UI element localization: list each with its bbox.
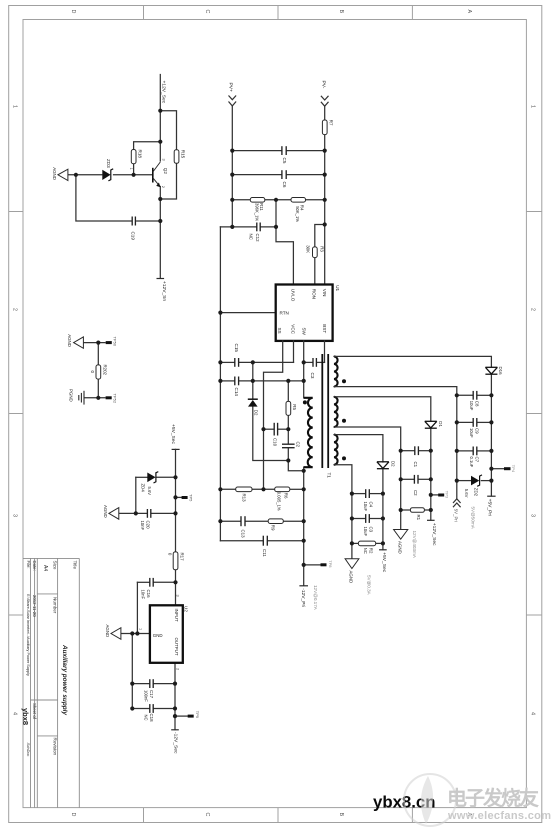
wire AGND node to R202 — [97, 343, 99, 365]
wire AGND to U2 pin1 — [121, 633, 150, 635]
capacitor C11 — [263, 536, 267, 546]
wire PV+ rail — [231, 106, 233, 227]
svg-text:C6: C6 — [282, 182, 287, 188]
resistor R1 — [410, 508, 424, 513]
wire R13 left lead — [220, 488, 235, 490]
svg-text:Size: Size — [53, 561, 58, 570]
wire C3s row right — [370, 518, 383, 520]
svg-text:+5V_Sec: +5V_Sec — [170, 424, 176, 445]
svg-text:4: 4 — [12, 712, 18, 715]
wire C10 row left — [264, 428, 274, 430]
terminal +12V_Sec — [427, 519, 435, 521]
svg-text:PV-: PV- — [321, 81, 327, 89]
wire C7 row left — [457, 450, 473, 452]
svg-text:PGND: PGND — [68, 389, 73, 402]
svg-text:VCC: VCC — [291, 324, 296, 334]
wire C9 row right — [478, 421, 492, 423]
wire C15 VCC row right — [239, 361, 293, 363]
resistor R15 — [174, 150, 179, 164]
wire C13 to R9 — [246, 520, 268, 522]
wire D2 to 5V rail — [382, 469, 384, 550]
capacitor C15 — [235, 358, 239, 367]
svg-text:.SchDoc: .SchDoc — [26, 742, 30, 756]
wire R3 bottom to RON pin — [314, 258, 316, 285]
transformer T1 secondary winding 3 — [334, 435, 338, 465]
wire C6 row left — [232, 174, 281, 176]
transformer T1 primary winding — [304, 398, 313, 467]
wire C16 branch down — [136, 582, 138, 633]
ground AGND test link block — [74, 337, 84, 348]
wire C3 bootstrap row — [304, 361, 313, 363]
diode D1 — [425, 421, 437, 428]
wire R2 row left — [352, 542, 359, 544]
capacitor C13 — [241, 516, 245, 526]
transformer T1 secondary 1 polarity dot — [342, 379, 346, 383]
svg-text:10uF: 10uF — [469, 401, 474, 411]
wire RON tap R3 — [315, 225, 325, 247]
svg-text:C: C — [204, 813, 210, 817]
resistor R18 — [131, 150, 136, 164]
svg-text:+5V_Sec: +5V_Sec — [381, 552, 387, 573]
port 5V_Pri chevron — [453, 499, 461, 507]
wire SS pin step down — [264, 341, 283, 489]
wire winding1 bottom return — [334, 387, 457, 499]
wire C18 row right — [154, 708, 175, 710]
svg-text:R3: R3 — [320, 246, 325, 252]
svg-text:C: C — [204, 10, 210, 14]
svg-text:TP52: TP52 — [112, 394, 117, 404]
diode D16 — [485, 367, 497, 374]
zener ZD3 — [102, 169, 113, 181]
zone divider ticks top — [144, 6, 413, 20]
wire PV- entry to R7 — [324, 106, 326, 120]
capacitor C19 — [132, 217, 135, 226]
wire TP4 stub — [491, 468, 504, 470]
svg-text:ZD3: ZD3 — [106, 159, 111, 168]
transformer T1 secondary 2 polarity dot — [342, 419, 346, 423]
svg-text:12V@403mA: 12V@403mA — [412, 531, 417, 559]
svg-text:File:: File: — [26, 561, 31, 569]
svg-text:RON: RON — [311, 289, 316, 299]
svg-text:3: 3 — [162, 159, 166, 161]
svg-text:5V_Pri: 5V_Pri — [453, 509, 458, 522]
svg-text:C12: C12 — [255, 234, 260, 243]
test point TP9 bar — [188, 715, 194, 718]
capacitor C8 — [473, 391, 477, 400]
wire C19 branch — [76, 175, 131, 221]
svg-text:C5: C5 — [282, 158, 287, 164]
svg-text:UVLO: UVLO — [291, 289, 296, 302]
svg-text:E:\Share-Solar Inverter\..\Aux: E:\Share-Solar Inverter\..\Auxiliary Pow… — [26, 594, 30, 676]
svg-text:5V@50mA: 5V@50mA — [471, 507, 476, 530]
svg-text:AGND: AGND — [103, 505, 108, 518]
svg-text:C13: C13 — [240, 530, 245, 539]
svg-text:Number: Number — [53, 597, 58, 614]
svg-text:Revision: Revision — [53, 738, 58, 756]
capacitor C6 — [282, 170, 286, 179]
svg-text:5.6V: 5.6V — [464, 489, 469, 498]
wire C18 row left — [132, 708, 149, 710]
capacitor C2 snubber vertical — [282, 444, 295, 448]
wire C2 row right — [419, 478, 431, 480]
wire RTN pin — [220, 312, 275, 314]
svg-text:3: 3 — [12, 514, 18, 517]
wire D16 to 5Vpri rail — [490, 375, 492, 496]
svg-text:1: 1 — [129, 168, 133, 170]
wire R15 branch top jog — [160, 111, 176, 150]
svg-text:U2: U2 — [183, 606, 188, 612]
wire winding2 top to D1 — [334, 397, 431, 421]
svg-text:AGND: AGND — [397, 541, 402, 554]
wire UVLO tap down — [275, 200, 277, 227]
test point TP50 bar — [106, 341, 112, 344]
op-amp U1 converter IC box — [276, 285, 333, 341]
wire R5 top lead — [287, 381, 289, 402]
svg-text:AGND: AGND — [52, 167, 57, 180]
ground PGND symbol — [79, 391, 84, 405]
wire divider row between R11 and R4 — [265, 199, 291, 201]
test point TP52 bar — [106, 396, 112, 399]
wire R18 bottom to base — [133, 164, 135, 175]
svg-text:R15: R15 — [181, 150, 186, 159]
transformer T1 secondary winding 1 — [334, 356, 338, 386]
ground AGND at Q2 base — [58, 169, 68, 180]
wire winding3 bottom to AGND column — [334, 465, 352, 559]
svg-text:www.elecfans.com: www.elecfans.com — [447, 810, 551, 822]
wire ZD2 row left — [457, 480, 471, 482]
wire TP9 stub — [175, 715, 188, 717]
svg-text:VIN: VIN — [322, 289, 327, 297]
svg-text:C7: C7 — [475, 457, 480, 463]
wire C11 row right — [268, 540, 303, 542]
svg-text:R5: R5 — [292, 404, 297, 410]
svg-text:TP50: TP50 — [113, 337, 118, 347]
svg-text:C10: C10 — [272, 438, 277, 447]
zone numbers right edge 1 2 3 4 — [530, 105, 536, 715]
wire winding2 bottom to AGND rail — [334, 427, 401, 529]
wire winding3 top to D2 — [334, 435, 383, 462]
capacitor C10 — [274, 423, 277, 436]
zone letters bottom edge D C B A — [70, 813, 472, 817]
svg-text:TP4: TP4 — [511, 465, 516, 473]
diode D2 secondary — [377, 462, 389, 469]
wire R1 row left — [401, 509, 411, 511]
capacitor C18 — [150, 704, 153, 713]
svg-text:D1: D1 — [438, 421, 443, 427]
svg-text:D: D — [70, 10, 76, 14]
wire C4 row right — [370, 493, 383, 495]
zone numbers left edge 1 2 3 4 — [12, 105, 18, 715]
svg-text:ybx8: ybx8 — [21, 708, 30, 725]
wire D1 to 12V rail — [430, 429, 432, 520]
svg-text:2: 2 — [530, 308, 536, 311]
resistor R17 — [173, 552, 178, 570]
wire primary bottom rail — [303, 467, 305, 585]
svg-text:GND: GND — [153, 633, 163, 638]
transformer T1 secondary winding 2 — [334, 397, 338, 427]
svg-text:-12V_Sec: -12V_Sec — [172, 732, 178, 754]
wire C5 row right — [287, 150, 325, 152]
svg-text:C2: C2 — [296, 442, 301, 448]
ground AGND 12V rail — [394, 530, 408, 540]
svg-text:10nF: 10nF — [140, 521, 145, 531]
ground AGND 5V column — [345, 559, 359, 569]
transformer T1 primary polarity dot — [303, 400, 307, 404]
svg-text:R202: R202 — [102, 365, 107, 376]
svg-text:Auxiliary power supply: Auxiliary power supply — [61, 644, 68, 715]
svg-text:12V@0.17A: 12V@0.17A — [313, 585, 318, 611]
wire C16 row — [137, 581, 149, 583]
svg-text:R13: R13 — [242, 494, 247, 503]
svg-text:2: 2 — [176, 668, 180, 670]
wire winding1 top to D16 — [334, 356, 491, 366]
wire C20 row left — [119, 512, 147, 514]
svg-text:1: 1 — [138, 628, 142, 630]
svg-text:2012-11-20: 2012-11-20 — [32, 595, 37, 617]
svg-text:AGND: AGND — [348, 571, 353, 584]
svg-text:TP9: TP9 — [195, 711, 200, 719]
svg-text:R18: R18 — [137, 150, 142, 159]
transformer T1 core bars — [322, 354, 328, 468]
terminal +12V_Sn — [157, 278, 165, 280]
svg-text:D16: D16 — [498, 367, 503, 376]
wire C6 row right — [287, 174, 325, 176]
svg-text:0.005_1%: 0.005_1% — [277, 492, 282, 511]
svg-text:RTN: RTN — [280, 311, 289, 316]
capacitor C3 secondary — [366, 514, 370, 523]
svg-text:C14: C14 — [234, 388, 239, 397]
svg-text:5V@0.3A: 5V@0.3A — [366, 575, 371, 596]
svg-text:TP3: TP3 — [445, 491, 450, 499]
port PV- chevron — [321, 96, 329, 106]
svg-text:10uF: 10uF — [363, 502, 368, 512]
capacitor C2 — [414, 475, 418, 484]
test point TP8 bar — [321, 563, 327, 566]
wire BST pin drop — [324, 341, 326, 363]
svg-text:BST: BST — [322, 324, 327, 333]
wire R202 to PGND — [97, 379, 99, 398]
svg-text:1: 1 — [12, 105, 18, 108]
resistor R7 — [322, 120, 327, 135]
svg-text:0.1uF: 0.1uF — [469, 457, 474, 468]
wire C9 row left — [457, 421, 473, 423]
resistor R13 — [236, 487, 252, 492]
wire C14 row to SW — [288, 380, 303, 382]
svg-text:C8: C8 — [475, 401, 480, 407]
ground AGND at U2 — [111, 628, 121, 640]
svg-text:R1: R1 — [416, 515, 421, 521]
wire TP8 stub — [304, 564, 321, 566]
capacitor C12 — [257, 223, 260, 232]
junction dots Q2 area — [74, 109, 163, 223]
wire divider row R4 right lead — [306, 199, 325, 201]
wire U2 ground rail — [131, 634, 133, 709]
resistor R2 — [358, 541, 375, 546]
wire UVLO jog to pin — [276, 227, 293, 285]
wire PGND row — [84, 397, 106, 399]
wire R1 row right — [424, 509, 430, 511]
wire U2 pin2 down — [174, 663, 176, 730]
svg-text:C1: C1 — [413, 462, 418, 468]
svg-text:NC: NC — [249, 234, 254, 240]
capacitor C7 — [473, 447, 477, 456]
svg-text:3: 3 — [530, 514, 536, 517]
svg-text:50K_1%: 50K_1% — [295, 206, 300, 222]
wire R17 to U2 pin3 — [175, 570, 177, 606]
zener ZD2 — [471, 475, 482, 486]
wire C10 row right — [278, 428, 288, 430]
svg-text:R7: R7 — [329, 120, 334, 126]
wire PV-/VIN rail — [324, 135, 326, 285]
test point TP5 bar — [182, 496, 188, 499]
svg-text:-12V_Pri: -12V_Pri — [300, 588, 306, 607]
wire C14 row right — [239, 380, 288, 382]
capacitor C5 — [282, 146, 286, 155]
svg-text:AGND: AGND — [67, 334, 72, 347]
wire R18 top jog to rail — [134, 142, 161, 150]
capacitor C20 — [147, 509, 150, 518]
svg-text:B: B — [338, 10, 344, 14]
wire C1 row left — [401, 450, 414, 452]
wire diode D2 primary branch upper — [252, 362, 254, 398]
resistor R11 — [250, 198, 264, 203]
wire TP5 stub — [176, 496, 182, 498]
svg-text:1: 1 — [530, 105, 536, 108]
svg-text:ZD4: ZD4 — [141, 484, 146, 493]
svg-text:Q2: Q2 — [163, 168, 168, 175]
wire snubber cap to primary rail — [288, 448, 303, 471]
resistor R3 — [313, 247, 318, 258]
wire C8 row right — [478, 394, 492, 396]
terminal -12V_Pri — [299, 585, 308, 587]
svg-text:PV+: PV+ — [227, 83, 233, 93]
svg-text:10uF: 10uF — [469, 428, 474, 438]
svg-text:Date:: Date: — [32, 561, 37, 571]
wire C1 row right — [419, 450, 430, 452]
wire C3 to BST — [317, 361, 325, 363]
wire R5 bottom to snubber cap — [287, 415, 289, 443]
title block outline — [23, 558, 79, 807]
capacitor C17 — [150, 679, 153, 688]
ground AGND at C20 — [109, 508, 119, 520]
resistor R9 — [268, 519, 283, 524]
svg-text:3: 3 — [176, 595, 180, 597]
junction dots input network — [218, 149, 327, 315]
wire C2 row left — [401, 478, 414, 480]
svg-text:D: D — [70, 813, 76, 817]
svg-text:+5V_Pri: +5V_Pri — [487, 499, 493, 517]
svg-text:+12V_Sn: +12V_Sn — [161, 281, 167, 302]
wire ZD2 row right — [481, 480, 491, 482]
wire diode D2 primary branch lower — [253, 407, 288, 461]
test point TP4 bar — [504, 467, 511, 470]
svg-text:R6: R6 — [284, 493, 289, 499]
svg-text:ZD2: ZD2 — [474, 488, 479, 497]
svg-text:A4: A4 — [42, 565, 48, 571]
wire AGND to TP50 — [83, 342, 105, 344]
svg-text:30K: 30K — [305, 245, 310, 253]
svg-text:INPUT: INPUT — [174, 609, 179, 622]
svg-text:B: B — [338, 813, 344, 817]
wire C3s row left — [352, 518, 365, 520]
wire C12 row right — [261, 226, 276, 228]
svg-text:C11: C11 — [262, 549, 267, 557]
wire VCC pin drop — [293, 341, 295, 363]
svg-text:U1: U1 — [335, 285, 340, 291]
capacitor C14 — [235, 377, 239, 386]
svg-text:C2: C2 — [413, 490, 418, 496]
svg-text:AGND: AGND — [105, 625, 110, 638]
wire R2 row right — [376, 542, 383, 544]
terminal +5V_Pri power bar — [487, 495, 495, 497]
svg-text:C3: C3 — [310, 373, 315, 379]
svg-text:NC: NC — [363, 548, 368, 554]
junction dots U2 block — [96, 341, 177, 719]
wire SW pin to primary — [303, 341, 305, 398]
wire C13 row left — [220, 520, 240, 522]
zone letters top edge D C B A — [70, 10, 472, 14]
svg-text:396K_1%: 396K_1% — [254, 203, 259, 221]
zone divider ticks bottom — [144, 808, 413, 823]
wire ZD4 corner down — [135, 477, 137, 513]
svg-text:R9: R9 — [271, 525, 276, 531]
wire ZD4 right lead — [156, 476, 175, 478]
svg-text:SS: SS — [277, 328, 282, 334]
svg-text:D2: D2 — [253, 410, 258, 416]
junction dots right section — [350, 393, 494, 545]
zone divider ticks right — [526, 212, 541, 616]
terminal +5V_Sec feeding U2 — [172, 448, 180, 450]
capacitor C3 bootstrap — [313, 358, 316, 367]
diode D2 primary — [248, 399, 258, 406]
resistor R6 — [275, 487, 290, 492]
resistor R202 — [96, 365, 101, 379]
svg-text:C19: C19 — [131, 232, 136, 241]
wire C19 to rail — [137, 220, 161, 222]
wire Q2 base — [68, 174, 102, 176]
wire C17 row left — [132, 683, 149, 685]
wire R9 right lead — [283, 520, 303, 522]
svg-text:Sheet of: Sheet of — [32, 703, 37, 720]
wire U2 input rail upper — [175, 449, 177, 552]
zone divider ticks left — [9, 212, 23, 616]
wire TP3 stub — [431, 494, 438, 496]
wire C17 row right — [154, 683, 175, 685]
wire Q2 base right of ZD3 — [114, 174, 153, 176]
wire RTN left rail — [219, 227, 221, 541]
svg-text:100nF: 100nF — [144, 690, 149, 702]
wire C4 row left — [352, 493, 365, 495]
svg-text:5.6V: 5.6V — [147, 487, 152, 496]
terminal +5V_Sec — [379, 549, 387, 551]
resistor R4 — [291, 198, 306, 203]
wire C5 row left — [232, 150, 281, 152]
capacitor C1 — [415, 446, 419, 455]
svg-text:+12V_Sec: +12V_Sec — [431, 523, 437, 546]
svg-text:OUTPUT: OUTPUT — [174, 638, 179, 656]
transformer T1 secondary 3 polarity dot — [342, 456, 346, 460]
port PV+ chevron — [229, 96, 237, 106]
test point TP3 bar — [438, 494, 444, 497]
svg-text:D2: D2 — [390, 461, 395, 467]
svg-text:SW: SW — [301, 328, 306, 336]
wire C7 row right — [478, 450, 492, 452]
svg-text:T1: T1 — [327, 473, 332, 479]
svg-text:4: 4 — [530, 712, 536, 715]
wire C8 row left — [457, 394, 473, 396]
svg-text:2: 2 — [161, 186, 165, 188]
capacitor C9 — [473, 418, 477, 427]
